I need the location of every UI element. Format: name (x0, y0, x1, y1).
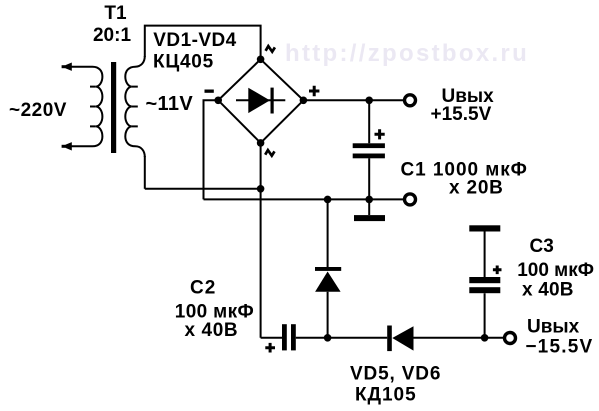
node C1 bottom junction (365, 196, 373, 204)
wire secondary top to bridge top (145, 26, 261, 60)
capacitor C3 (484, 232, 486, 338)
svg-text:100 мкФ: 100 мкФ (517, 260, 594, 281)
bridge inner diode (236, 99, 285, 101)
svg-text:20:1: 20:1 (93, 25, 131, 46)
svg-text:C3: C3 (530, 236, 554, 257)
wire C2 to VD6 (296, 337, 387, 339)
bridge ac tilde bottom (265, 150, 274, 156)
svg-text:~11V: ~11V (146, 93, 194, 115)
svg-text:x 40В: x 40В (185, 320, 239, 341)
bridge minus sign (205, 90, 214, 93)
diode VD6 (387, 326, 392, 352)
svg-text:КЦ405: КЦ405 (153, 52, 214, 73)
primary top arrow (62, 65, 65, 68)
C2 plus sign (265, 343, 275, 353)
terminal common (rail B) (405, 194, 416, 205)
wire rail A (transformer bottom to bridge bottom) (145, 188, 261, 190)
svg-text:−15.5V: −15.5V (525, 336, 593, 357)
primary winding cusp ticks (90, 87, 96, 127)
wire rail B (204, 198, 405, 200)
svg-text:T1: T1 (104, 3, 127, 24)
capacitor C1 (368, 100, 370, 199)
secondary winding (125, 56, 145, 157)
capacitor C2 (282, 324, 287, 350)
wire VD6 to terminal (414, 337, 505, 339)
svg-text:Uвых: Uвых (527, 316, 580, 337)
svg-text:~220V: ~220V (9, 100, 67, 121)
node rail A / bridge bottom junction (257, 185, 265, 193)
primary bottom arrow (62, 145, 65, 148)
diode VD5 (327, 199, 329, 337)
primary winding (63, 67, 103, 147)
bridge plus sign (309, 86, 319, 96)
node bridge top vertex (257, 56, 265, 64)
wire bridge bottom vertical through rail B to bottom rail (260, 143, 262, 338)
svg-text:x 40В: x 40В (522, 280, 574, 301)
svg-text:VD1-VD4: VD1-VD4 (153, 30, 236, 51)
bridge rectifier VD1-VD4 diamond (218, 59, 303, 143)
terminal +15.5V (405, 95, 416, 106)
svg-text:+15.5V: +15.5V (431, 104, 492, 125)
ground symbol above C3 (469, 225, 500, 231)
node C1 top junction (365, 97, 373, 105)
wire secondary bottom down (144, 156, 146, 189)
C3 plus sign (493, 266, 502, 275)
svg-text:VD5, VD6: VD5, VD6 (350, 363, 441, 384)
node bridge right vertex (300, 97, 308, 105)
C1 plus sign (375, 129, 385, 139)
wire rail 1 (+15.5V) (303, 99, 403, 101)
secondary winding cusp ticks (132, 87, 138, 127)
terminal -15.5V (505, 333, 516, 344)
transformer core (111, 62, 116, 153)
node VD5 bottom junction (324, 334, 332, 342)
wire bridge left vertex to rail B (204, 100, 219, 199)
svg-text:КД105: КД105 (355, 384, 417, 405)
node VD5 top junction on rail B (324, 196, 332, 204)
ground symbol under C1 (368, 199, 370, 215)
svg-text:http://zpostbox.ru: http://zpostbox.ru (285, 40, 529, 67)
node bridge left vertex (214, 97, 222, 105)
bridge ac tilde top (266, 46, 275, 52)
wire bottom rail left segment (261, 337, 282, 339)
svg-text:C2: C2 (190, 277, 216, 298)
node bridge bottom vertex (257, 139, 265, 147)
node C3 bottom junction (481, 334, 489, 342)
svg-text:x 20В: x 20В (449, 178, 504, 199)
